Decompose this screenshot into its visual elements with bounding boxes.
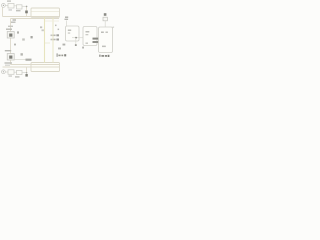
node C junction dot	[75, 37, 77, 39]
pin tip at end of drop	[75, 44, 77, 46]
wire top bus lower	[11, 18, 60, 20]
wire V2 to R3	[5, 71, 8, 73]
label net name top	[13, 19, 17, 21]
label plus mark 2	[58, 29, 60, 31]
label small mark below LED	[22, 38, 25, 40]
module U3c box	[99, 27, 113, 53]
label pin mark right of LED	[17, 31, 19, 33]
microcontroller U1 top module box	[31, 8, 60, 17]
resistor R2	[17, 5, 23, 9]
switch S1 symbol above U3c	[103, 17, 107, 21]
wire highlighted vertical net between U1 and U2	[44, 17, 46, 62]
U2 internal header line	[32, 66, 60, 68]
module U3b box	[83, 27, 97, 46]
resistor R4	[17, 70, 23, 74]
label left of net mark b	[42, 29, 44, 31]
wire V1 to R1	[5, 5, 8, 7]
wire bottom bus lower	[3, 66, 60, 68]
label net name on sensor output	[26, 59, 32, 61]
label below U3a	[63, 44, 66, 46]
U3c inner text row2	[102, 46, 106, 48]
module U3a box	[66, 26, 80, 41]
wire R3 to R4	[14, 71, 17, 73]
wire highlighted vertical net 2	[52, 17, 54, 62]
label R3 value	[9, 75, 13, 76]
U3a pin text	[68, 30, 71, 32]
wire left column rail	[10, 19, 12, 65]
label plus mark 1	[55, 25, 57, 27]
label S1 above switch	[104, 13, 107, 16]
voltage source V2	[2, 70, 6, 74]
U1 internal header line	[32, 11, 60, 13]
resistor R3	[8, 70, 14, 75]
wire into U3a top	[66, 21, 68, 27]
wire node C drop	[75, 38, 77, 46]
capacitor C2 body	[25, 74, 27, 77]
U3b inner text	[86, 31, 90, 33]
label R4 value	[15, 76, 20, 77]
label mid mark	[58, 48, 61, 50]
wire U3a to U3b	[72, 37, 83, 39]
label column header text	[11, 22, 16, 23]
node B junction dot	[26, 72, 28, 74]
capacitor C1 body	[25, 11, 28, 14]
label net text row2	[51, 39, 53, 41]
microcontroller U2 bottom module box	[31, 63, 60, 72]
wire bottom bus upper	[11, 64, 60, 66]
wire R2 to node A	[22, 5, 27, 7]
label net text row1	[51, 35, 53, 37]
label net name above U2	[57, 53, 58, 56]
label M mark right of sensor	[21, 53, 23, 55]
label net B	[31, 36, 33, 38]
LED D1	[7, 32, 14, 39]
U3b pin labels dark	[93, 38, 100, 40]
wire bottom junction riser	[26, 67, 28, 73]
label dot left of U3b	[82, 47, 84, 49]
wire left riser from source V1	[2, 7, 4, 17]
pin stub right of U3c	[113, 27, 115, 28]
sensor U4	[7, 54, 14, 61]
node A junction dot	[26, 6, 28, 8]
U3c inner text row1	[101, 32, 104, 34]
voltage source V1	[2, 4, 6, 8]
resistor R1	[8, 4, 14, 9]
wire S1 to U3c	[104, 21, 106, 27]
label R2 value	[16, 10, 21, 11]
wire junction drop at node A	[26, 7, 28, 17]
label small mark mid column	[14, 44, 16, 46]
wire R4 to node B	[22, 72, 27, 74]
label LED1 name	[6, 29, 12, 30]
wire top bus upper	[3, 16, 60, 18]
label bottom chain text	[5, 62, 13, 63]
wire stub from highlighted net	[45, 42, 50, 44]
wire stub right of highlighted net	[45, 20, 59, 22]
label R1 value	[9, 9, 13, 10]
wire R1 to R2	[14, 5, 17, 7]
wire sensor output	[14, 59, 25, 61]
label below U3c	[99, 55, 100, 57]
label 5V above module U3a	[65, 17, 68, 18]
label left of net mark a	[40, 26, 42, 28]
label above R1	[7, 0, 11, 1]
label sensor name	[5, 50, 11, 51]
